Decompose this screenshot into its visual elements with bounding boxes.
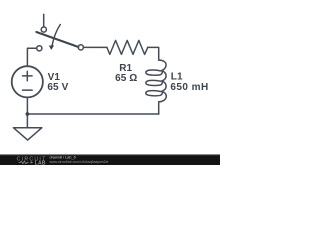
- svg-text:www.circuitlab.com/c9c6aq5aajw: www.circuitlab.com/c9c6aq5aajwm2/e: [50, 160, 109, 164]
- svg-text:L1: L1: [171, 71, 183, 82]
- svg-text:LAB: LAB: [35, 160, 46, 165]
- svg-text:65 V: 65 V: [47, 82, 68, 93]
- svg-text:65 Ω: 65 Ω: [115, 73, 137, 84]
- svg-text:650 mH: 650 mH: [170, 82, 208, 93]
